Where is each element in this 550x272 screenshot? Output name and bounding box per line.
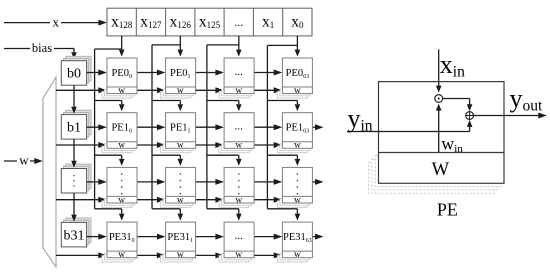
PE detail stacked planes: [369, 156, 501, 193]
svg-text:w: w: [294, 195, 301, 205]
wire w_in: [436, 104, 442, 153]
svg-text:w: w: [177, 141, 184, 151]
svg-text:w: w: [235, 141, 242, 151]
wire y bus row 2 from b to col0: [87, 179, 107, 185]
wire w bus row 0 col2 to col3: [254, 87, 282, 93]
wire w bus row 3 col1 to col2: [196, 252, 224, 258]
svg-text:...: ...: [235, 230, 244, 242]
bias input wire: [4, 49, 77, 60]
processing element PE3163: [277, 222, 312, 262]
svg-text:PE11: PE11: [170, 123, 191, 135]
wire w bus row 2 from plane to col0: [56, 197, 107, 203]
svg-text:...: ...: [235, 66, 244, 78]
wire y bus row 1 from b to col0: [87, 124, 107, 130]
svg-text:W: W: [432, 160, 450, 180]
wire y bus row 1 col1 to col2: [196, 124, 224, 130]
X shift register row: [107, 8, 312, 36]
svg-text:w: w: [235, 86, 242, 96]
processing element PE311: [161, 222, 196, 262]
wire y bus row 1 col0 to col1: [137, 124, 165, 130]
wire x branch column 0 row 1: [95, 101, 125, 112]
wire y bus row 1 col2 to col3: [254, 124, 282, 130]
wire x drop column 1: [152, 36, 183, 57]
svg-text:w: w: [177, 86, 184, 96]
multiplier: [435, 95, 443, 103]
svg-text:w: w: [118, 141, 125, 151]
node bias label: [30, 41, 54, 55]
wire x branch column 3 row 3: [267, 209, 300, 221]
svg-text:w: w: [294, 250, 301, 260]
processing element PE163: [277, 113, 312, 153]
wire w bus row 3 from plane to col0: [56, 252, 107, 258]
svg-text:...: ...: [235, 121, 244, 133]
svg-text:w: w: [235, 195, 242, 205]
svg-text:PE: PE: [437, 200, 458, 220]
svg-text:w: w: [235, 250, 242, 260]
processing element PE dots r2 c0: [102, 167, 137, 207]
wire w bus row 3 col2 to col3: [254, 252, 282, 258]
wire x drop column 3: [267, 36, 300, 57]
node w label: [17, 153, 30, 168]
wire y output row 2: [312, 179, 323, 185]
svg-text:w: w: [177, 195, 184, 205]
wire x bus column 2: [206, 45, 208, 209]
svg-text:w: w: [118, 195, 125, 205]
wire x_in: [436, 49, 442, 92]
w memory plane (parallelogram): [43, 77, 56, 267]
processing element PE dots r0 c2: [219, 58, 254, 98]
wire x branch column 0 row 3: [95, 209, 125, 221]
wire x branch column 2 row 2: [207, 155, 242, 166]
wire y bus row 0 col0 to col1: [137, 70, 165, 76]
wire w bus row 1 col0 to col1: [137, 142, 165, 148]
wire w bus row 2 col1 to col2: [196, 197, 224, 203]
wire x branch column 3 row 2: [267, 155, 300, 166]
processing element PE dots r3 c2: [219, 222, 254, 262]
wire w bus row 1 col1 to col2: [196, 142, 224, 148]
svg-text:b31: b31: [64, 228, 85, 243]
w input wire: [4, 158, 43, 164]
processing element PE11: [161, 113, 196, 153]
processing element PE10: [102, 113, 137, 153]
svg-text:w: w: [294, 141, 301, 151]
svg-text:w: w: [294, 86, 301, 96]
wire y bus row 2 col2 to col3: [254, 179, 282, 185]
svg-text:...: ...: [234, 15, 243, 29]
wire y bus row 3 col0 to col1: [137, 234, 165, 240]
node x_in label: [440, 50, 465, 80]
wire mult to adder: [443, 99, 473, 112]
adder: [466, 112, 474, 120]
bias register b-dots: [61, 164, 91, 193]
wire b1 to b-dots: [71, 139, 77, 168]
wire y bus row 3 col2 to col3: [254, 234, 282, 240]
wire w bus row 0 col0 to col1: [137, 87, 165, 93]
svg-text:PE311: PE311: [167, 232, 193, 244]
processing element PE dots r2 c1: [161, 167, 196, 207]
wire y_out: [474, 113, 547, 119]
wire w bus row 1 from plane to col0: [56, 142, 107, 148]
wire w bus row 0 col1 to col2: [196, 87, 224, 93]
svg-text:b1: b1: [67, 121, 81, 136]
svg-text:w: w: [177, 250, 184, 260]
wire x bus column 3: [266, 45, 268, 208]
svg-text:PE00: PE00: [111, 68, 132, 80]
svg-text:b0: b0: [67, 67, 81, 82]
svg-text:PE310: PE310: [109, 232, 135, 244]
node y_out label: [510, 84, 544, 114]
processing element PE310: [102, 222, 137, 262]
bias register b1: [61, 110, 91, 139]
bias register b0: [61, 56, 91, 85]
wire b-dots to b31: [71, 193, 77, 222]
wire y bus row 3 col1 to col2: [196, 234, 224, 240]
bias register b31: [61, 218, 91, 247]
node w_in label: [441, 134, 463, 155]
wire w bus row 0 from plane to col0: [56, 87, 107, 93]
x input wire: [4, 20, 107, 26]
wire x branch column 3 row 1: [267, 101, 300, 112]
wire w bus row 2 col0 to col1: [137, 197, 165, 203]
wire w bus row 2 col2 to col3: [254, 197, 282, 203]
wire x branch column 2 row 3: [207, 209, 242, 221]
wire x branch column 1 row 3: [152, 209, 183, 221]
wire x branch column 0 row 2: [95, 155, 125, 166]
node y_in label: [348, 104, 373, 134]
wire y_in: [347, 120, 472, 132]
wire y bus row 3 from b to col0: [87, 234, 107, 240]
processing element PE063: [277, 58, 312, 98]
wire x bus column 0: [94, 49, 96, 209]
wire y output row 3: [312, 234, 323, 240]
wire x drop column 0: [95, 36, 125, 57]
wire y bus row 0 col1 to col2: [196, 70, 224, 76]
wire b0 to b1: [71, 85, 77, 114]
wire x branch column 1 row 2: [152, 155, 183, 166]
svg-text:bias: bias: [32, 41, 52, 55]
wire w bus row 3 col0 to col1: [137, 252, 165, 258]
processing element PE dots r1 c2: [219, 113, 254, 153]
wire x drop column 2: [207, 36, 242, 57]
processing element PE dots r2 c3: [277, 167, 312, 207]
wire y bus row 0 from b to col0: [87, 70, 107, 76]
node x label: [50, 14, 61, 29]
wire w bus row 1 col2 to col3: [254, 142, 282, 148]
processing element PE00: [102, 58, 137, 98]
wire y bus row 2 col1 to col2: [196, 179, 224, 185]
svg-text:x: x: [53, 14, 60, 29]
svg-text:PE10: PE10: [111, 123, 132, 135]
wire x branch column 2 row 1: [207, 101, 242, 112]
wire y bus row 2 col0 to col1: [137, 179, 165, 185]
wire y bus row 0 col2 to col3: [254, 70, 282, 76]
PE detail box: [379, 82, 505, 184]
svg-text:w: w: [118, 250, 125, 260]
processing element PE01: [161, 58, 196, 98]
svg-text:w: w: [118, 86, 125, 96]
processing element PE dots r2 c2: [219, 167, 254, 207]
svg-text:w: w: [19, 153, 29, 168]
wire x bus column 1: [151, 45, 153, 209]
wire y output row 1: [312, 124, 323, 130]
svg-text:PE01: PE01: [170, 68, 191, 80]
wire x branch column 1 row 1: [152, 101, 183, 112]
